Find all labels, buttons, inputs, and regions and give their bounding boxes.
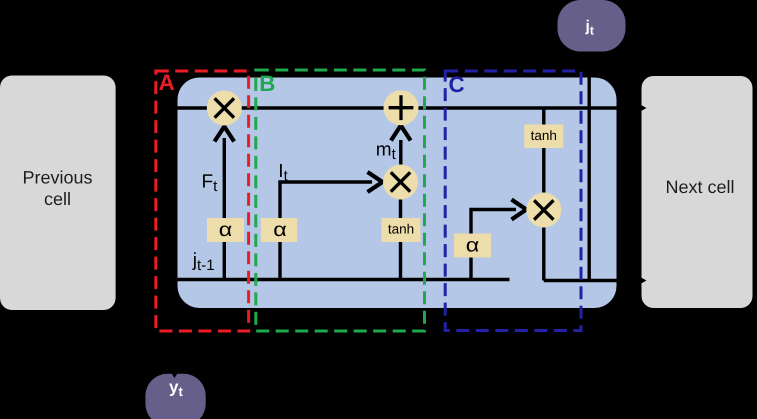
arrowhead into output multiply gate [512, 200, 527, 220]
dashed region box A [156, 71, 249, 331]
svg-text:C: C [449, 72, 465, 97]
dashed region box C [445, 71, 581, 331]
svg-text:α: α [466, 235, 480, 257]
svg-text:tanh: tanh [388, 222, 414, 237]
wire: output multiply gate down to bottom line [542, 228, 545, 281]
svg-text:Next cell: Next cell [665, 177, 734, 197]
svg-text:A: A [159, 70, 175, 95]
node j_t output [558, 0, 626, 52]
wire: right vertical to j_t output [588, 78, 591, 281]
LSTM cell body [178, 78, 617, 309]
gate: output multiply X3 [526, 193, 561, 228]
wire: multiply to add gate [399, 140, 402, 165]
arrowhead into y_t [169, 370, 180, 379]
activation box: alpha A [207, 218, 244, 242]
gate: forget multiply X1 [207, 91, 242, 126]
activation box: tanh B [382, 218, 421, 242]
wire: tanh to multiply gate [399, 200, 402, 219]
arrowhead into forget gate [215, 127, 235, 142]
arrowhead into next cell (top) [637, 103, 647, 114]
wire: tanh C to output multiply gate [542, 148, 545, 193]
wire: output branch elbow (C alpha) [471, 210, 516, 280]
node y_t output [145, 370, 205, 419]
svg-text:Previous: Previous [22, 168, 92, 188]
dashed region box B [256, 70, 425, 331]
activation box: tanh C [524, 125, 563, 149]
wire: forget branch vertical (A) [223, 138, 226, 280]
wire: top cell-state line [150, 106, 640, 109]
wire: bottom j_t-1 line [160, 278, 510, 281]
next cell box [642, 76, 753, 308]
wire: top line to tanh (C) [542, 108, 545, 130]
svg-text:α: α [219, 219, 233, 241]
svg-text:tanh: tanh [531, 128, 557, 143]
arrowhead into input multiply gate [368, 172, 383, 192]
gate: add + [384, 90, 419, 125]
svg-text:B: B [259, 71, 275, 96]
wire: output bottom-right line [544, 279, 640, 282]
svg-text:cell: cell [44, 189, 71, 209]
arrowhead into add gate [391, 126, 411, 141]
arrowhead into next cell (bottom) [637, 275, 647, 286]
previous cell box [0, 76, 116, 311]
wire: candidate branch vertical (B tanh) [399, 230, 402, 280]
activation box: alpha B [261, 218, 298, 242]
gate: input multiply X2 [383, 165, 418, 200]
svg-text:α: α [273, 219, 287, 241]
wire: input branch elbow (B) [280, 182, 372, 280]
activation box: alpha C [454, 234, 491, 258]
